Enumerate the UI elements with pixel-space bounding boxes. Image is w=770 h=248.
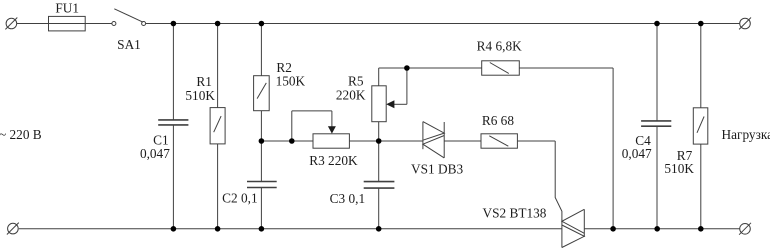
wire VS1 to R6 [444,140,481,142]
wire mid rail left [261,140,313,142]
svg-text:510K: 510K [664,161,694,176]
terminal X2 top-right [740,18,751,29]
terminal X3 bottom-left [8,223,19,234]
node bottom C4 [654,226,660,232]
svg-text:R6 68: R6 68 [482,113,514,128]
svg-text:~ 220 В: ~ 220 В [0,127,42,142]
wire bottom rail left [19,228,562,230]
node mid R2-C2 [259,138,265,144]
fuse FU1 [49,16,86,31]
capacitor C2 [247,182,277,188]
svg-text:220K: 220K [336,88,366,103]
svg-text:FU1: FU1 [55,1,79,16]
capacitor C4 [641,121,671,126]
node bottom C1 [171,226,177,232]
potentiometer R3 [313,134,349,148]
wire R1 branch [217,24,219,108]
terminal X4 bottom-right [740,224,751,235]
triac VS2 [561,220,563,248]
wire C4 branch [656,24,658,121]
svg-text:Нагрузка: Нагрузка [722,127,770,142]
resistor R7 [693,108,708,144]
node mid R3 wiper [289,138,295,144]
node bottom C3 [376,226,382,232]
node top R7 [698,21,704,27]
svg-text:VS2 BT138: VS2 BT138 [483,206,547,221]
capacitor C1 [158,120,188,125]
node top R2 [259,21,265,27]
svg-text:0,047: 0,047 [140,146,170,161]
node bottom R4 [610,226,616,232]
resistor R6 [481,134,517,148]
wire R5 to R4 [379,67,482,69]
node top R1 [215,21,221,27]
wire R7 branch [700,24,702,108]
wire R4 to bottom rail [519,67,613,69]
resistor R1 [210,108,225,144]
diac VS1 [422,122,424,150]
wire bottom rail right [584,228,739,230]
svg-text:R5: R5 [348,73,364,88]
wire C1 branch [172,24,174,120]
wire C2 branch [260,141,262,182]
node top C4 [654,21,660,27]
node mid R5-C3 [376,138,382,144]
svg-text:SA1: SA1 [117,37,141,52]
svg-text:510K: 510K [185,88,215,103]
svg-text:C2 0,1: C2 0,1 [222,191,257,206]
wire mid rail center [349,140,423,142]
wire fuse to switch [85,23,112,25]
resistor R4 [482,61,520,75]
svg-text:R3 220K: R3 220K [309,153,358,168]
wire C3 branch [378,141,380,182]
svg-text:R4 6,8K: R4 6,8K [477,39,522,54]
wire R2 branch [260,24,262,76]
resistor R2 [254,76,270,111]
capacitor C3 [364,182,395,189]
svg-text:VS1 DB3: VS1 DB3 [411,162,463,177]
switch SA1 [112,22,116,26]
terminal X1 top-left [6,18,17,29]
node R5 wiper top [404,65,410,71]
wire top rail left [17,23,49,25]
svg-text:0,047: 0,047 [622,146,652,161]
node bottom C2 [259,226,265,232]
svg-text:C3 0,1: C3 0,1 [330,191,365,206]
node bottom R7 [698,226,704,232]
potentiometer R5 [372,86,386,122]
wire R6 to gate [517,140,555,142]
node bottom R1 [215,226,221,232]
svg-text:150K: 150K [276,74,306,89]
wire top rail [146,23,740,25]
node top C1 [171,21,177,27]
